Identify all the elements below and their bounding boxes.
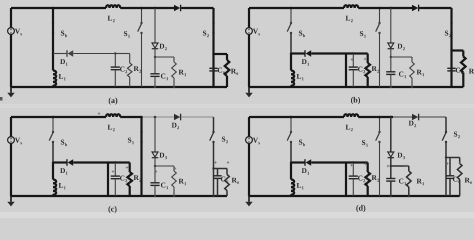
polarity mark (d): [405, 164, 407, 166]
node output top (a): [212, 53, 214, 55]
wire top rail mid (b): [358, 7, 412, 9]
label R2 (c): [134, 175, 139, 180]
label Sb (d): [299, 140, 302, 145]
label C2 (c): [120, 176, 124, 181]
resistor R2 (b): [367, 54, 369, 64]
capacitor Co (a): [212, 54, 214, 87]
label C2 (a): [120, 67, 124, 72]
capacitor C2 (b): [352, 54, 354, 68]
capacitor C1 (c): [154, 166, 156, 183]
label Co (a): [218, 68, 222, 73]
label D1 (c): [60, 168, 65, 173]
switch Sb (b): [290, 8, 292, 23]
label L1 (a): [59, 74, 64, 79]
label D1 (b): [302, 59, 307, 64]
capacitor C2 (a): [114, 54, 116, 68]
polarity mark (c): [227, 161, 229, 163]
label S2 (a): [203, 31, 206, 36]
capacitor Co (c): [213, 169, 215, 197]
label L1 (b): [297, 74, 302, 79]
wire output box top (c): [214, 168, 228, 170]
node D1 junction (a): [52, 52, 54, 54]
wire to R1 (d): [391, 165, 409, 167]
label S2 (d): [454, 132, 457, 137]
node top rail D-branch (c): [154, 116, 157, 119]
polarity mark (b): [390, 63, 392, 65]
wire bottom rail (b): [249, 86, 463, 88]
label C2 (b): [358, 67, 362, 72]
voltage source Vs (d): [248, 117, 250, 137]
resistor Ro (c): [226, 169, 228, 175]
label R1 (a): [179, 70, 184, 75]
label L2 (b): [346, 16, 351, 21]
node C1 top (d): [390, 165, 392, 167]
wire to R1 (b): [391, 56, 412, 58]
node output top (c): [212, 167, 214, 169]
wire output box top (a): [214, 53, 228, 55]
wire node to L1 (a): [52, 54, 54, 71]
label Sb (b): [299, 31, 302, 36]
voltage source Vs (b): [248, 8, 250, 28]
polarity mark (d): [350, 164, 352, 166]
diode D1 (d): [291, 161, 305, 163]
switch S2 (a): [212, 8, 214, 23]
label C1 (a): [161, 74, 165, 79]
inductor L1 (a): [53, 71, 56, 86]
diode D2 (a): [154, 8, 156, 43]
polarity mark (c): [214, 161, 216, 163]
capacitor C2 (c): [114, 163, 116, 177]
ground (b): [248, 87, 250, 93]
wire to R1 (c): [155, 165, 174, 167]
node top rail D-branch (a): [154, 7, 157, 10]
label D3 (d): [397, 153, 402, 158]
switch S1 (b): [379, 8, 381, 23]
switch S1 (a): [141, 8, 143, 23]
label R1 (d): [417, 179, 422, 184]
inductor L1 (b): [291, 71, 294, 86]
polarity mark (c): [98, 112, 100, 114]
resistor R2 (d): [367, 163, 369, 173]
wire node to L1 (c): [52, 163, 54, 180]
wire return vertical (b): [345, 54, 347, 88]
diode D2 top (d): [412, 114, 418, 120]
wire top rail mid (d): [358, 116, 393, 118]
wire node to L1 (d): [290, 163, 292, 180]
wire top rail right (b): [419, 7, 451, 9]
label C1 (b): [399, 72, 403, 77]
wire top rail mid (a): [120, 7, 174, 9]
capacitor C2 (d): [352, 163, 354, 177]
switch S1 (d): [379, 117, 381, 132]
node C2 top (d): [352, 161, 354, 163]
caption (d): [356, 205, 365, 212]
label D1 (a): [60, 59, 65, 64]
label D1 (d): [302, 168, 307, 173]
wire return vertical (c): [107, 163, 109, 197]
inductor L2 (a): [106, 5, 120, 8]
label Vs (d): [253, 138, 258, 143]
node top rail D-branch (b): [390, 7, 393, 10]
node C1 top (c): [154, 165, 156, 167]
node C2 top (c): [114, 161, 116, 163]
label Vs (a): [15, 29, 20, 34]
polarity mark (c): [174, 167, 176, 169]
label D2 (c): [172, 123, 177, 128]
label Sb (c): [61, 140, 64, 145]
node output top (b): [450, 49, 452, 51]
label Ro (b): [469, 69, 474, 74]
label Ro (d): [465, 178, 470, 183]
switch S2 (d): [445, 117, 447, 132]
switch Sb (a): [52, 8, 54, 23]
diode D2 top (c): [174, 114, 180, 120]
wire bottom rail (a): [11, 86, 227, 88]
switch S2 (c): [213, 117, 215, 132]
label Co (d): [453, 177, 457, 182]
label D3 (c): [159, 153, 164, 158]
wire top rail left (c): [11, 116, 106, 118]
label Co (c): [221, 177, 225, 182]
diode top rail (a): [174, 5, 180, 11]
ground (c): [10, 196, 12, 202]
caption (a): [109, 97, 118, 104]
switch S1 (c): [140, 117, 142, 132]
polarity mark (d): [364, 163, 366, 165]
polarity mark (d): [387, 165, 389, 167]
label Ro (c): [232, 178, 237, 183]
resistor Ro (a): [226, 54, 228, 60]
polarity mark (d): [446, 162, 448, 164]
wire bottom rail (d): [249, 195, 460, 197]
wire bottom rail (c): [11, 195, 227, 197]
wire Sb to D1 node (a): [52, 33, 54, 54]
wire D1 to R2 corner (b): [353, 52, 367, 54]
inductor L2 (b): [344, 5, 358, 8]
caption (b): [351, 97, 360, 104]
resistor R2 (a): [129, 54, 131, 64]
node C2 top (b): [352, 52, 354, 54]
label R2 (b): [372, 66, 377, 71]
label S1 (b): [360, 31, 363, 36]
capacitor C1 (b): [390, 57, 392, 72]
node top rail D-branch (d): [390, 116, 393, 119]
label R2 (a): [134, 66, 139, 71]
ground (d): [248, 196, 250, 202]
wire Sb to D1 node (c): [52, 142, 54, 163]
diode top rail (b): [412, 5, 418, 11]
node D1 junction (b): [290, 52, 292, 54]
inductor L1 (c): [53, 180, 56, 195]
label L1 (d): [297, 183, 302, 188]
switch Sb (c): [52, 117, 54, 132]
ground (a): [10, 87, 12, 93]
label S2 (b): [445, 31, 448, 36]
wire node to L1 (b): [290, 54, 292, 71]
label L2 (c): [108, 125, 113, 130]
resistor Ro (d): [459, 158, 461, 164]
node output top (d): [445, 156, 447, 158]
label S1 (a): [124, 31, 127, 36]
wire top rail left (d): [249, 116, 344, 118]
wire output box top (d): [446, 157, 460, 159]
polarity mark (b): [351, 58, 353, 60]
edge speck: [0, 97, 3, 101]
label R1 (b): [417, 70, 422, 75]
polarity mark (c): [112, 170, 114, 172]
polarity mark (c): [155, 170, 157, 172]
wire return vertical (d): [345, 163, 347, 197]
capacitor Co (b): [450, 51, 452, 88]
label R2 (d): [372, 175, 377, 180]
switch Sb (d): [290, 117, 292, 132]
wire D1 to R2 corner (d): [353, 161, 367, 163]
label Vs (c): [15, 138, 20, 143]
capacitor Co (d): [445, 158, 447, 197]
wire Sb to D1 node (d): [290, 142, 292, 163]
label Sb (a): [61, 31, 64, 36]
inductor L2 (c): [106, 114, 120, 117]
label C1 (d): [399, 179, 403, 184]
capacitor C1 (d): [390, 166, 392, 179]
wire top rail left (a): [11, 7, 106, 9]
label L2 (a): [108, 16, 113, 21]
capacitor C1 (a): [154, 57, 156, 74]
wire output box top (b): [452, 49, 464, 51]
wire Sb to D1 node (b): [290, 33, 292, 54]
resistor R2 (c): [129, 163, 131, 173]
wire D1 to R2 corner (c): [115, 161, 129, 163]
label Co (b): [456, 68, 460, 73]
resistor R1 (b): [411, 57, 413, 62]
switch S2 (b): [450, 8, 452, 23]
diode D2 (b): [390, 8, 392, 43]
label L2 (d): [346, 125, 351, 130]
diode D1 (b): [291, 52, 305, 54]
wire top rail right (c): [181, 116, 213, 118]
label C1 (c): [161, 183, 165, 188]
voltage source Vs (a): [10, 8, 12, 28]
wire top rail right (a): [181, 7, 213, 9]
resistor R1 (d): [408, 166, 410, 171]
resistor Ro (b): [462, 51, 464, 57]
wire top rail right (d): [419, 116, 446, 118]
resistor R1 (a): [173, 57, 175, 62]
diode D3 (c): [154, 117, 156, 152]
polarity mark (b): [364, 58, 366, 60]
label S1 (d): [362, 140, 365, 145]
label Ro (a): [231, 69, 236, 74]
label D2 (a): [159, 44, 164, 49]
node C1 top (a): [154, 56, 156, 58]
polarity mark (c): [126, 166, 128, 168]
node C1 top (b): [390, 56, 392, 58]
wire top rail left (b): [249, 7, 344, 9]
wire to R1 (a): [155, 56, 174, 58]
diode D3 (d): [390, 117, 392, 152]
label D2 (b): [397, 44, 402, 49]
label D2 (d): [409, 121, 414, 126]
label Vs (b): [253, 29, 258, 34]
label L1 (c): [59, 183, 64, 188]
caption (c): [108, 206, 116, 213]
label R1 (c): [179, 179, 184, 184]
wire D1 to R2 corner (a): [115, 53, 129, 55]
polarity mark (d): [459, 162, 461, 164]
label C2 (d): [358, 176, 362, 181]
diode D1 (a): [53, 53, 67, 55]
voltage source Vs (c): [10, 117, 12, 137]
label S1 (c): [128, 138, 131, 143]
node C2 top (a): [114, 52, 116, 54]
label S2 (c): [222, 137, 225, 142]
inductor L2 (d): [344, 114, 358, 117]
resistor R1 (c): [173, 166, 175, 171]
node D1 junction (d): [290, 161, 292, 163]
node D1 junction (c): [52, 161, 54, 163]
inductor L1 (d): [291, 180, 294, 195]
diode D1 (c): [53, 161, 67, 163]
wire top rail mid (c): [120, 116, 141, 118]
